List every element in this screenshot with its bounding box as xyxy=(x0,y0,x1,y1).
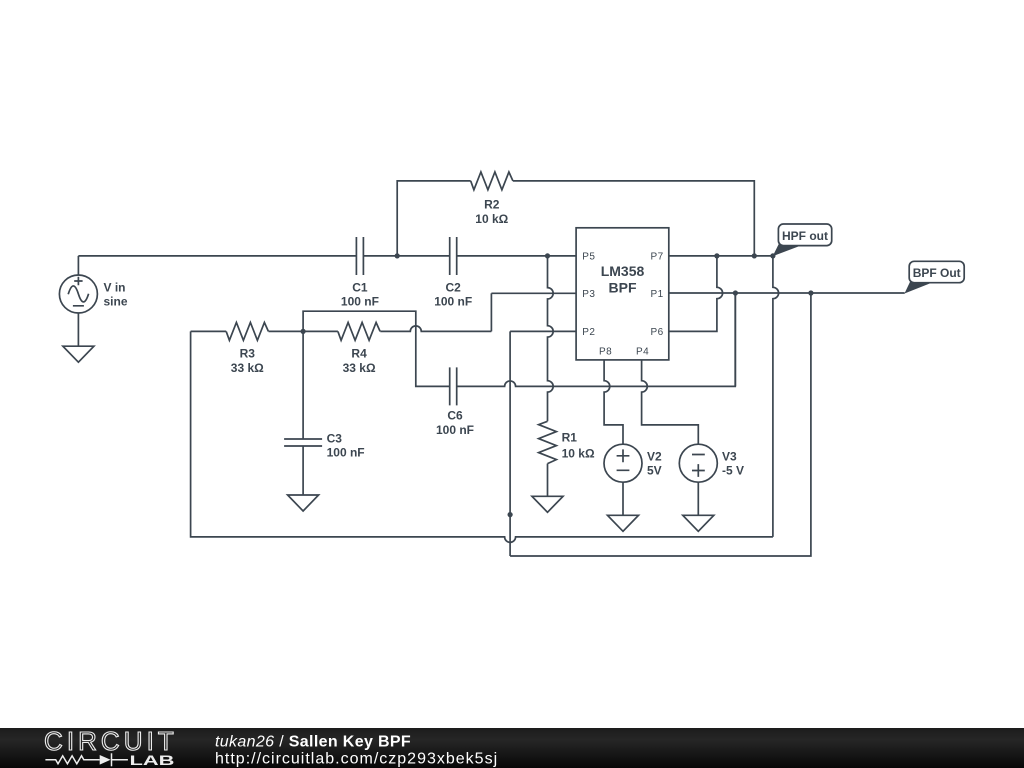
svg-text:HPF out: HPF out xyxy=(782,229,828,243)
wire R4 right lead with hop xyxy=(380,326,491,331)
wire R3 R4 junction xyxy=(269,330,338,332)
svg-text:BPF: BPF xyxy=(609,280,637,296)
svg-text:P3: P3 xyxy=(582,289,595,300)
voltage source V2 xyxy=(604,444,642,482)
junction node bottom xyxy=(508,512,513,517)
node BPF Out flag xyxy=(905,280,932,294)
voltage source V3 xyxy=(679,444,717,482)
svg-text:V in: V in xyxy=(104,281,126,295)
junction node at R2 branch xyxy=(395,253,400,258)
voltage source V1 V in sine xyxy=(59,275,97,313)
svg-text:100 nF: 100 nF xyxy=(327,446,365,460)
ground below C3 xyxy=(288,495,319,511)
svg-text:10 kΩ: 10 kΩ xyxy=(475,212,508,226)
wire bypass loop over R4 xyxy=(303,311,450,386)
wire vertical node A with hops xyxy=(548,256,554,421)
wire P6 to P7 vertical with hop xyxy=(669,256,723,332)
junction node HPF out xyxy=(770,253,775,258)
resistor R2 xyxy=(471,172,513,190)
wire C6 right lead with hop xyxy=(457,293,736,386)
svg-text:R4: R4 xyxy=(351,347,367,361)
svg-text:P5: P5 xyxy=(582,252,595,263)
svg-text:C2: C2 xyxy=(446,280,462,294)
junction node P7 P6 xyxy=(714,253,719,258)
wire P1 to C6 vertical xyxy=(734,293,736,386)
svg-text:CIRCUIT: CIRCUIT xyxy=(44,726,178,756)
capacitor C3 xyxy=(284,439,322,446)
ground below V in xyxy=(63,346,94,362)
junction node P1 C6 xyxy=(733,290,738,295)
wire R2 right branch xyxy=(513,181,754,256)
wire V3 bottom lead xyxy=(697,482,699,515)
wire bottom feedback to BPF xyxy=(510,293,811,556)
svg-text:R3: R3 xyxy=(240,347,256,361)
svg-text:P2: P2 xyxy=(582,327,595,338)
wire P8 supply stem with hop xyxy=(604,360,623,444)
resistor R4 xyxy=(338,323,380,341)
wire op-amp P1 output row xyxy=(669,292,905,294)
svg-text:tukan26 / Sallen Key BPF: tukan26 / Sallen Key BPF xyxy=(215,734,411,751)
wire op-amp P3 input xyxy=(491,292,576,294)
wire bottom return to R3 with hop xyxy=(191,331,773,542)
wire HPF node vertical with hop xyxy=(773,256,779,537)
svg-text:P8: P8 xyxy=(599,347,612,358)
svg-text:P4: P4 xyxy=(636,347,649,358)
ground below R1 xyxy=(532,496,563,512)
svg-text:http://circuitlab.com/czp293xb: http://circuitlab.com/czp293xbek5sj xyxy=(215,751,498,768)
wire op-amp P7 output row xyxy=(669,255,773,257)
svg-text:LAB: LAB xyxy=(130,753,175,768)
wire P3 to R4 vertical xyxy=(490,293,492,331)
svg-text:100 nF: 100 nF xyxy=(341,295,379,309)
svg-text:R2: R2 xyxy=(484,198,500,212)
junction node A top xyxy=(545,253,550,258)
capacitor C1 xyxy=(356,237,363,275)
junction node P7 R2 xyxy=(752,253,757,258)
svg-text:-5 V: -5 V xyxy=(722,464,744,478)
ground below V2 xyxy=(608,515,639,531)
wire V in top lead xyxy=(77,256,79,275)
FOOTER xyxy=(0,726,1024,768)
svg-text:C6: C6 xyxy=(447,408,463,422)
svg-text:sine: sine xyxy=(104,295,128,309)
svg-text:5V: 5V xyxy=(647,464,662,478)
resistor R1 xyxy=(539,421,557,463)
svg-text:10 kΩ: 10 kΩ xyxy=(562,447,595,461)
wire op-amp P2 input xyxy=(510,330,576,332)
svg-text:V2: V2 xyxy=(647,449,662,463)
junction node BPF out xyxy=(808,290,813,295)
logo resistor diode glyph xyxy=(45,753,128,766)
svg-text:BPF Out: BPF Out xyxy=(913,266,961,280)
svg-text:P6: P6 xyxy=(650,327,663,338)
wire R3 left lead xyxy=(191,330,227,332)
wire V2 bottom lead xyxy=(622,482,624,515)
svg-text:33 kΩ: 33 kΩ xyxy=(343,361,376,375)
wire R1 bottom lead xyxy=(547,464,549,497)
svg-text:LM358: LM358 xyxy=(601,263,645,279)
op-amp U1 LM358 box xyxy=(576,228,669,360)
wire C3 bottom lead xyxy=(302,446,304,495)
wire V in bottom lead xyxy=(77,313,79,346)
wire C3 top lead xyxy=(302,331,304,439)
wire P2 vertical to bottom xyxy=(509,331,511,556)
ground below V3 xyxy=(683,515,714,531)
svg-text:33 kΩ: 33 kΩ xyxy=(231,361,264,375)
junction node R3 R4 C3 xyxy=(301,329,306,334)
svg-text:P1: P1 xyxy=(650,289,663,300)
capacitor C2 xyxy=(450,237,457,275)
svg-text:R1: R1 xyxy=(562,431,578,445)
wire R2 left branch xyxy=(397,181,471,256)
resistor R3 xyxy=(226,323,268,341)
wire main input row xyxy=(78,255,576,257)
node HPF out flag xyxy=(773,243,800,257)
svg-text:C3: C3 xyxy=(327,432,343,446)
svg-text:C1: C1 xyxy=(352,280,368,294)
svg-text:P7: P7 xyxy=(650,252,663,263)
wire P4 supply stem with hop xyxy=(642,360,699,444)
svg-text:100 nF: 100 nF xyxy=(436,423,474,437)
capacitor C6 xyxy=(450,367,457,405)
svg-text:100 nF: 100 nF xyxy=(434,295,472,309)
svg-text:V3: V3 xyxy=(722,449,737,463)
